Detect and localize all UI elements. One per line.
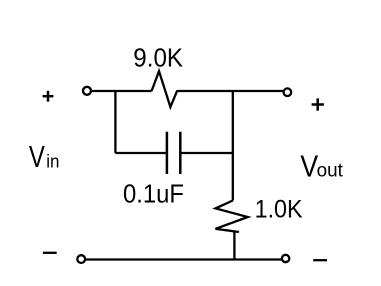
minus sign output <box>313 259 327 261</box>
wire bottom <box>86 258 282 260</box>
label Vin <box>29 139 60 174</box>
wire vertical left branch <box>114 91 116 153</box>
resistor R2 <box>216 201 248 233</box>
terminal Vin- (open circle) <box>77 255 85 263</box>
svg-text:out: out <box>317 161 344 182</box>
minus sign input <box>43 252 57 254</box>
svg-text:9.0K: 9.0K <box>133 45 183 73</box>
capacitor C1 <box>167 132 180 174</box>
wire vertical right branch <box>232 91 234 201</box>
terminal Vin+ (open circle) <box>83 87 91 95</box>
wire resistor R2 bottom lead <box>233 232 235 260</box>
resistor R1 <box>152 71 178 107</box>
label Vout <box>300 149 343 184</box>
terminal Vout+ (open circle) <box>284 88 292 96</box>
wire top-right <box>177 90 283 92</box>
svg-text:0.1uF: 0.1uF <box>123 179 184 209</box>
svg-text:V: V <box>29 139 45 174</box>
svg-text:1.0K: 1.0K <box>255 195 303 223</box>
plus sign output <box>312 98 324 110</box>
wire capacitor left lead <box>115 152 165 154</box>
svg-text:in: in <box>46 152 59 172</box>
wire top-left <box>92 90 152 92</box>
plus sign input <box>43 91 54 102</box>
terminal Vout- (open circle) <box>282 255 289 262</box>
wire capacitor right lead <box>181 152 232 154</box>
